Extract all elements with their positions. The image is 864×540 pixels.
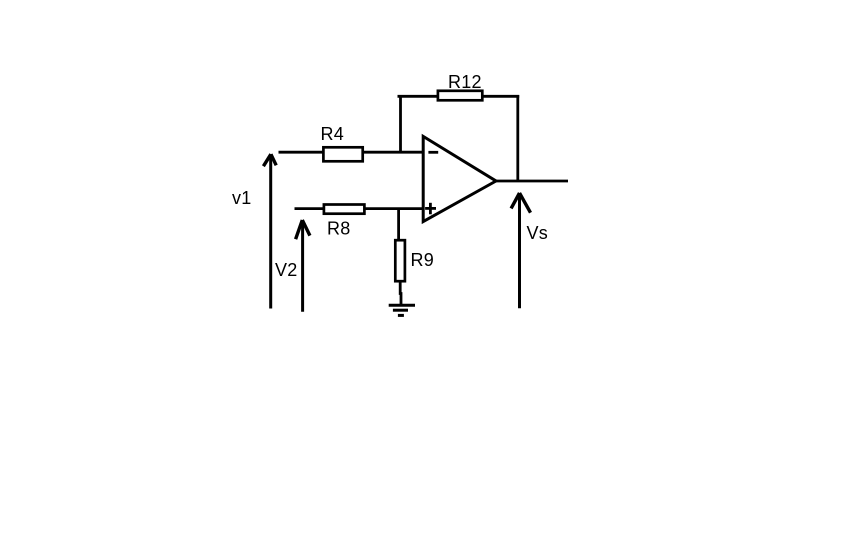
op-amp inverting pin minus sign	[428, 151, 438, 154]
wire V2 source to R8	[295, 207, 326, 210]
wire R4 to inverting input	[363, 151, 424, 154]
wire feedback top right (R12 right lead)	[483, 95, 519, 98]
svg-text:V2: V2	[275, 260, 298, 280]
source arrow V2	[296, 220, 310, 312]
wire R9 bottom lead to ground	[399, 282, 403, 306]
resistor R4	[323, 147, 362, 161]
resistor R9	[395, 240, 405, 281]
resistor R12	[438, 91, 482, 101]
svg-text:R8: R8	[327, 218, 351, 238]
wire output from op-amp apex	[495, 180, 569, 183]
svg-text:R9: R9	[411, 250, 435, 270]
wire feedback right vertical drop to output node	[516, 95, 519, 181]
wire R8 to non-inverting input	[364, 207, 423, 210]
wire v1 source to R4	[279, 151, 325, 154]
ground	[389, 305, 415, 315]
svg-text:Vs: Vs	[527, 223, 549, 243]
svg-text:v1: v1	[232, 188, 252, 208]
source arrow v1	[263, 154, 276, 308]
wire feedback top left (R12 left lead)	[398, 95, 439, 98]
wire R9 top lead from non-inverting node	[397, 209, 400, 241]
svg-text:R4: R4	[321, 124, 345, 144]
svg-text:R12: R12	[448, 72, 482, 92]
op-amp U1	[423, 136, 496, 221]
source arrow Vs	[511, 193, 530, 308]
wire feedback left vertical drop to inverting input node	[399, 95, 402, 152]
resistor R8	[324, 205, 365, 214]
op-amp non-inverting pin plus sign	[425, 203, 436, 215]
